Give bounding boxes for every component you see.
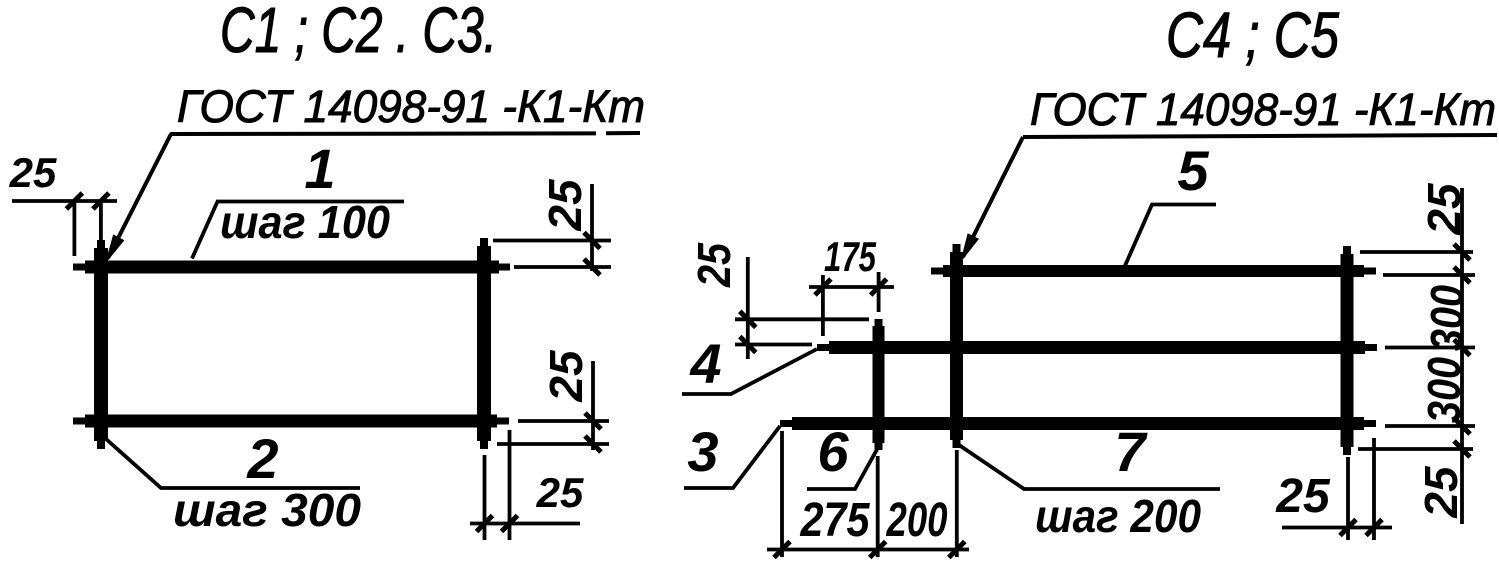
- svg-text:С4 ; С5: С4 ; С5: [1166, 0, 1339, 71]
- rebar 1 top bar: [73, 264, 510, 271]
- svg-text:25: 25: [536, 469, 584, 516]
- rebar 2 bottom bar: [73, 418, 509, 425]
- svg-text:ГОСТ 14098-91 -К1-Кт: ГОСТ 14098-91 -К1-Кт: [1030, 84, 1496, 135]
- rebar 5 top bar: [931, 268, 1376, 275]
- leader 6: [807, 444, 880, 489]
- leader 7: [959, 445, 1220, 489]
- GOST leader right: [963, 137, 1023, 257]
- GOST underline left: [170, 131, 596, 136]
- svg-text:С1 ; С2 . С3.: С1 ; С2 . С3.: [220, 0, 497, 66]
- middle vertical bar of right mesh: [953, 244, 961, 448]
- leader 4: [682, 349, 817, 394]
- svg-text:1: 1: [304, 137, 335, 200]
- svg-text:25: 25: [540, 349, 592, 403]
- svg-text:шаг 200: шаг 200: [1035, 490, 1201, 542]
- dim 175: [809, 233, 894, 336]
- svg-text:300: 300: [1421, 285, 1473, 351]
- svg-text:2: 2: [246, 427, 278, 490]
- leader 5: [1124, 205, 1216, 269]
- svg-text:5: 5: [1177, 139, 1209, 202]
- leader 1: [192, 202, 404, 259]
- svg-text:25: 25: [1275, 470, 1331, 523]
- rebar 4 middle bar: [817, 344, 1377, 351]
- dim 25 bottom-right of right mesh: [1275, 438, 1392, 540]
- svg-text:4: 4: [689, 332, 721, 395]
- leader 2: [106, 439, 360, 488]
- dim 25 right-top of left mesh: [493, 178, 611, 275]
- svg-text:25: 25: [539, 178, 591, 232]
- dim column right of right mesh: 25,300,300,25: [1358, 182, 1475, 524]
- svg-text:шаг 300: шаг 300: [173, 484, 361, 536]
- svg-text:шаг 100: шаг 100: [220, 196, 390, 248]
- dim 25 bottom of left mesh: [470, 430, 584, 540]
- rebar 3 bottom bar: [780, 420, 1376, 427]
- dim 25 left of right mesh: [688, 242, 869, 359]
- GOST leader left: [108, 134, 171, 258]
- rebar 6 short vertical bar: [875, 319, 883, 450]
- right vertical bar of right mesh: [1343, 246, 1351, 455]
- svg-text:275: 275: [800, 494, 871, 547]
- svg-text:6: 6: [817, 420, 849, 483]
- svg-text:25: 25: [1415, 465, 1467, 519]
- svg-text:3: 3: [687, 420, 718, 483]
- leader 3: [684, 426, 780, 488]
- left vertical bar: [97, 240, 105, 449]
- svg-text:175: 175: [824, 233, 876, 280]
- svg-text:25: 25: [9, 149, 57, 196]
- right vertical bar: [480, 238, 488, 449]
- dim 25 right-bottom of left mesh: [497, 349, 609, 452]
- svg-text:ГОСТ 14098-91 -К1-Кт: ГОСТ 14098-91 -К1-Кт: [177, 81, 645, 132]
- svg-text:25: 25: [688, 242, 740, 288]
- svg-text:200: 200: [886, 494, 948, 547]
- dim 275 and 200 bottom: [767, 431, 969, 558]
- GOST underline right: [1023, 135, 1497, 137]
- svg-text:7: 7: [1114, 420, 1148, 483]
- dim 25 top-left: [9, 149, 117, 256]
